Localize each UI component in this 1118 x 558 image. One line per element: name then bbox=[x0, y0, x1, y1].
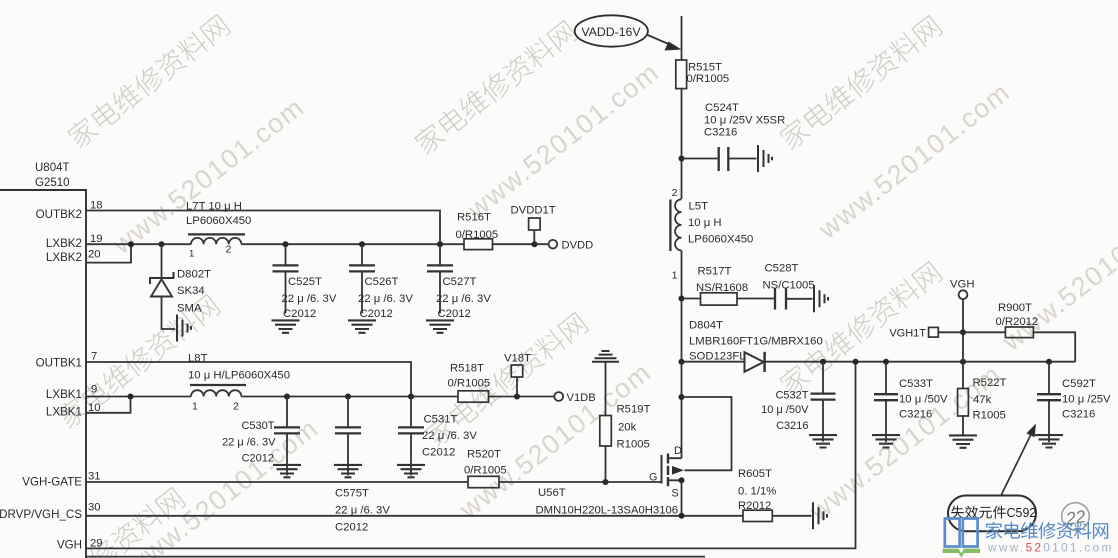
ground C527T bbox=[426, 320, 454, 332]
capacitor C526T bbox=[361, 244, 363, 264]
wire pin10 join bbox=[86, 397, 131, 413]
wire VADD rail top bbox=[681, 16, 683, 60]
svg-text:L7T 10 μ H: L7T 10 μ H bbox=[186, 201, 242, 213]
svg-text:U804T: U804T bbox=[35, 162, 70, 174]
resistor R520T bbox=[468, 476, 499, 487]
svg-text:2: 2 bbox=[226, 244, 232, 256]
svg-text:R522T: R522T bbox=[973, 377, 1007, 389]
junction dot source/pin30 bbox=[679, 513, 685, 519]
junction dots LXBK2 bbox=[128, 241, 134, 247]
ground C533T bbox=[872, 435, 900, 447]
wire drain from node bbox=[681, 362, 683, 459]
wire LXBK1 rail bbox=[86, 396, 554, 398]
svg-text:0/R1005: 0/R1005 bbox=[448, 378, 491, 390]
svg-text:VADD-16V: VADD-16V bbox=[581, 25, 641, 39]
svg-text:1: 1 bbox=[672, 270, 678, 282]
junction dot C524T bbox=[679, 156, 685, 162]
svg-text:C531T: C531T bbox=[424, 414, 458, 426]
resistor R516T bbox=[464, 239, 493, 250]
capacitor C592T bbox=[1048, 362, 1050, 394]
resistor R515T bbox=[676, 60, 687, 89]
svg-text:22 μ /6. 3V: 22 μ /6. 3V bbox=[335, 505, 390, 517]
svg-text:10 μ /50V: 10 μ /50V bbox=[761, 404, 809, 416]
svg-text:C592: C592 bbox=[1007, 506, 1037, 520]
junction dot drain loop bbox=[679, 394, 685, 400]
transistor U56T MOSFET bbox=[661, 455, 663, 484]
svg-text:C3216: C3216 bbox=[1062, 409, 1095, 421]
svg-text:C524T: C524T bbox=[705, 102, 739, 114]
capacitor C525T bbox=[285, 244, 287, 264]
svg-text:LXBK1: LXBK1 bbox=[46, 388, 82, 401]
svg-text:OUTBK2: OUTBK2 bbox=[36, 208, 82, 221]
svg-text:OUTBK1: OUTBK1 bbox=[36, 357, 82, 370]
svg-text:20: 20 bbox=[88, 249, 101, 261]
wire L5T to diode bbox=[681, 251, 683, 362]
capacitor (middle, LXBK1) bbox=[347, 397, 349, 427]
svg-text:LMBR160FT1G/MBRX160: LMBR160FT1G/MBRX160 bbox=[689, 336, 823, 348]
svg-text:VGH: VGH bbox=[950, 279, 974, 291]
svg-text:LXBK1: LXBK1 bbox=[46, 406, 82, 419]
svg-text:0. 1/1%: 0. 1/1% bbox=[738, 486, 776, 498]
ground above R519T bbox=[592, 351, 619, 362]
svg-text:DRVP/VGH_CS: DRVP/VGH_CS bbox=[0, 508, 82, 521]
svg-text:D802T: D802T bbox=[177, 269, 211, 281]
capacitor C531T bbox=[410, 397, 412, 427]
svg-text:22 μ /6. 3V: 22 μ /6. 3V bbox=[436, 293, 491, 305]
wire R515T to L5T bbox=[681, 89, 683, 199]
resistor R519T bbox=[600, 416, 612, 447]
svg-text:2: 2 bbox=[672, 187, 678, 199]
wire VGH rail bbox=[765, 361, 1075, 363]
svg-text:22 μ /6. 3V: 22 μ /6. 3V bbox=[422, 430, 477, 442]
svg-text:SMA: SMA bbox=[177, 303, 202, 315]
test point VGH1T bbox=[929, 327, 939, 337]
svg-text:NS/C1005: NS/C1005 bbox=[763, 280, 815, 292]
svg-text:C2012: C2012 bbox=[335, 522, 368, 534]
svg-text:0/R1005: 0/R1005 bbox=[687, 73, 730, 85]
svg-text:SK34: SK34 bbox=[177, 285, 205, 297]
svg-text:R1005: R1005 bbox=[973, 410, 1006, 422]
IC U804T G2510 bbox=[0, 190, 86, 558]
ground capacitor x=348 bbox=[334, 465, 362, 477]
svg-text:V18T: V18T bbox=[504, 353, 531, 365]
ground D802T bbox=[162, 297, 176, 330]
ground C532T bbox=[809, 435, 837, 447]
svg-text:C3216: C3216 bbox=[704, 127, 737, 139]
svg-text:19: 19 bbox=[90, 233, 103, 245]
capacitor C524T bbox=[682, 158, 718, 160]
svg-text:C527T: C527T bbox=[443, 276, 477, 288]
svg-text:SOD123FL: SOD123FL bbox=[689, 351, 746, 363]
resistor R517T bbox=[682, 298, 701, 300]
ground C525T bbox=[272, 320, 300, 332]
svg-text:22 μ /6. 3V: 22 μ /6. 3V bbox=[222, 437, 276, 449]
svg-text:1: 1 bbox=[189, 249, 194, 260]
callout arrow to C592T bbox=[1001, 435, 1031, 495]
wire VGH-GATE bbox=[86, 481, 662, 483]
svg-text:D804T: D804T bbox=[689, 320, 723, 332]
svg-text:30: 30 bbox=[88, 502, 101, 514]
svg-text:R900T: R900T bbox=[998, 302, 1032, 314]
svg-text:LP6060X450: LP6060X450 bbox=[688, 234, 753, 246]
svg-text:9: 9 bbox=[91, 384, 97, 396]
svg-text:C3216: C3216 bbox=[899, 409, 932, 421]
junction dot R519T/gate bbox=[603, 479, 609, 485]
svg-text:R518T: R518T bbox=[450, 363, 484, 375]
node V1DB bbox=[554, 392, 563, 401]
svg-text:DMN10H220L-13SA0H3106: DMN10H220L-13SA0H3106 bbox=[536, 505, 679, 517]
resistor R605T bbox=[743, 510, 772, 521]
svg-text:10 μ /25V: 10 μ /25V bbox=[1062, 394, 1111, 406]
capacitor C528T bbox=[737, 298, 774, 300]
svg-text:U56T: U56T bbox=[538, 487, 566, 499]
svg-text:G2510: G2510 bbox=[35, 177, 70, 189]
svg-text:C530T: C530T bbox=[241, 420, 274, 432]
ground capacitor x=287 bbox=[273, 465, 301, 477]
capacitor C532T bbox=[822, 362, 824, 393]
svg-text:NS/R1608: NS/R1608 bbox=[696, 282, 748, 294]
svg-text:R605T: R605T bbox=[738, 468, 772, 480]
wire DRVP/VGH_CS bbox=[86, 515, 743, 517]
wire LXBK2 rail bbox=[86, 243, 548, 245]
svg-text:D: D bbox=[674, 445, 682, 457]
inductor L8T bbox=[191, 390, 241, 396]
svg-text:22 μ /6. 3V: 22 μ /6. 3V bbox=[282, 293, 337, 305]
wire source down bbox=[681, 480, 683, 516]
wire pin7 OUTBK1 to node LX1 bbox=[86, 362, 411, 397]
svg-text:C2012: C2012 bbox=[242, 453, 274, 465]
svg-text:C592T: C592T bbox=[1062, 378, 1096, 390]
svg-text:L5T: L5T bbox=[689, 201, 709, 213]
svg-text:DVDD1T: DVDD1T bbox=[511, 205, 556, 217]
svg-text:10 μ /50V: 10 μ /50V bbox=[899, 394, 948, 406]
svg-text:2: 2 bbox=[233, 401, 239, 413]
svg-text:C2012: C2012 bbox=[438, 308, 471, 320]
capacitor C533T bbox=[885, 362, 887, 394]
ground C524T bbox=[758, 145, 772, 172]
arrow VADD to wire bbox=[647, 35, 673, 46]
svg-text:C532T: C532T bbox=[775, 390, 808, 402]
svg-text:C2012: C2012 bbox=[360, 308, 393, 320]
svg-text:C2012: C2012 bbox=[422, 447, 455, 459]
svg-text:C575T: C575T bbox=[335, 488, 369, 500]
svg-text:VGH1T: VGH1T bbox=[889, 328, 926, 340]
ground R605T bbox=[813, 502, 827, 529]
test point V18T bbox=[511, 365, 522, 377]
wire pin20 join bbox=[86, 244, 131, 262]
svg-text:7: 7 bbox=[91, 351, 97, 363]
svg-text:22 μ /6. 3V: 22 μ /6. 3V bbox=[358, 293, 413, 305]
svg-text:LXBK2: LXBK2 bbox=[46, 237, 82, 250]
resistor R522T bbox=[962, 362, 964, 389]
wire bottom pin line bbox=[86, 556, 705, 558]
svg-text:R517T: R517T bbox=[698, 266, 732, 278]
resistor R518T bbox=[458, 391, 489, 402]
diode D802T SK34 bbox=[161, 244, 163, 278]
svg-text:10 μ /25V X5SR: 10 μ /25V X5SR bbox=[704, 115, 785, 127]
svg-text:G: G bbox=[649, 472, 657, 484]
svg-text:L8T: L8T bbox=[188, 353, 208, 365]
junction dot source bbox=[679, 477, 685, 483]
svg-text:10 μ H/LP6060X450: 10 μ H/LP6060X450 bbox=[188, 370, 290, 382]
svg-text:R519T: R519T bbox=[617, 404, 651, 416]
svg-text:47k: 47k bbox=[973, 394, 992, 406]
junction dots LXBK1 bbox=[128, 394, 134, 400]
svg-text:DVDD: DVDD bbox=[562, 240, 594, 252]
wire VGH pin29 up to rail bbox=[86, 362, 856, 549]
svg-text:C525T: C525T bbox=[288, 276, 322, 288]
capacitor C530T bbox=[286, 397, 288, 427]
junction dot VGH1T bbox=[960, 329, 966, 335]
svg-text:R516T: R516T bbox=[457, 212, 491, 224]
svg-text:VGH-GATE: VGH-GATE bbox=[22, 476, 82, 489]
node DVDD bbox=[549, 240, 558, 249]
svg-text:R520T: R520T bbox=[467, 449, 501, 461]
svg-text:LXBK2: LXBK2 bbox=[46, 251, 82, 264]
callout 失效元件C592 bbox=[948, 496, 1036, 532]
ground R522T bbox=[949, 435, 977, 447]
ground C592T bbox=[1035, 435, 1063, 447]
svg-text:20k: 20k bbox=[618, 422, 637, 434]
svg-text:0/R1005: 0/R1005 bbox=[456, 229, 499, 241]
svg-text:R1005: R1005 bbox=[617, 439, 650, 451]
svg-text:C3216: C3216 bbox=[776, 420, 808, 432]
junction dot R517T bbox=[679, 296, 685, 302]
wire pin18 OUTBK2 to node LX2 bbox=[86, 211, 440, 245]
svg-text:C526T: C526T bbox=[365, 276, 399, 288]
junction dots VGH rail bbox=[679, 359, 685, 365]
svg-text:C533T: C533T bbox=[899, 378, 933, 390]
node VADD-16V bbox=[575, 15, 648, 46]
node VGH bbox=[959, 290, 968, 299]
svg-text:V1DB: V1DB bbox=[567, 392, 596, 404]
ground C526T bbox=[348, 320, 376, 332]
svg-text:VGH: VGH bbox=[57, 539, 82, 552]
resistor R900T bbox=[963, 331, 1005, 333]
svg-text:0/R1005: 0/R1005 bbox=[464, 465, 507, 477]
svg-text:C528T: C528T bbox=[765, 263, 799, 275]
svg-text:S: S bbox=[672, 488, 679, 500]
wire drain body loop bbox=[682, 397, 732, 470]
ground C528T bbox=[814, 285, 828, 312]
ground capacitor x=411 bbox=[397, 465, 425, 477]
svg-text:C2012: C2012 bbox=[283, 308, 316, 320]
svg-text:LP6060X450: LP6060X450 bbox=[186, 215, 251, 227]
svg-text:0/R2012: 0/R2012 bbox=[996, 316, 1039, 328]
svg-text:1: 1 bbox=[192, 401, 198, 413]
svg-text:www.520101.com: www.520101.com bbox=[987, 541, 1114, 555]
svg-text:R2012: R2012 bbox=[738, 500, 771, 512]
svg-text:10 μ H: 10 μ H bbox=[688, 217, 722, 229]
inductor L7T bbox=[191, 238, 241, 244]
svg-text:R515T: R515T bbox=[688, 62, 722, 74]
svg-text:31: 31 bbox=[88, 471, 101, 483]
test point DVDD1T bbox=[529, 218, 541, 230]
capacitor C527T bbox=[439, 244, 441, 264]
